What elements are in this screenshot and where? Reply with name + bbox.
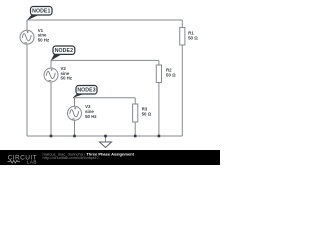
wire R1 bottom bbox=[181, 45, 183, 136]
node NODE2 flag bbox=[51, 46, 75, 61]
resistor R1 bbox=[180, 28, 185, 46]
wire V2 bottom to ground rail bbox=[50, 82, 52, 136]
svg-text:NODE1: NODE1 bbox=[32, 9, 50, 15]
wire V2 node to circle bbox=[50, 60, 52, 67]
junction dot ground/rail bbox=[104, 135, 107, 138]
voltage source V1 bbox=[20, 30, 34, 44]
svg-text:LAB: LAB bbox=[27, 159, 37, 164]
label R3 value bbox=[142, 107, 152, 117]
wire R1 top stub bbox=[181, 20, 183, 28]
label R1 value bbox=[188, 31, 198, 41]
logo resistor zigzag bbox=[8, 160, 20, 163]
wire ground stub bbox=[105, 136, 107, 142]
voltage source V2 bbox=[44, 68, 58, 82]
svg-text:50 Ω: 50 Ω bbox=[166, 73, 176, 78]
wire R3 top stub bbox=[134, 98, 136, 104]
wire R3 bottom bbox=[134, 122, 136, 136]
junction dot V3/rail bbox=[73, 135, 76, 138]
svg-text:50 Hz: 50 Hz bbox=[85, 114, 97, 119]
voltage source V3 bbox=[68, 106, 82, 120]
svg-text:50 Ω: 50 Ω bbox=[188, 36, 198, 41]
wire NODE3 horizontal bbox=[73, 97, 135, 99]
svg-text:NODE2: NODE2 bbox=[55, 48, 73, 54]
svg-text:NODE3: NODE3 bbox=[77, 88, 95, 94]
wire V1 bottom to ground rail bbox=[26, 44, 28, 136]
wire R2 top stub bbox=[158, 60, 160, 65]
wire V3 node to circle bbox=[74, 98, 76, 107]
node NODE3 flag bbox=[73, 86, 97, 98]
svg-text:50 Hz: 50 Hz bbox=[61, 76, 73, 81]
label R2 value bbox=[166, 68, 176, 78]
svg-text:http://circuitlab.com/c/b5vdqd: http://circuitlab.com/c/b5vdqd42 bbox=[43, 155, 100, 160]
label V3 value bbox=[85, 104, 97, 119]
wire V3 bottom to ground rail bbox=[74, 120, 76, 136]
svg-text:50 Hz: 50 Hz bbox=[38, 38, 50, 43]
svg-text:50 Ω: 50 Ω bbox=[142, 112, 152, 117]
junction dot R3/rail bbox=[134, 135, 137, 138]
junction dot V2/rail bbox=[50, 135, 53, 138]
ground bbox=[100, 142, 112, 148]
footer bar bbox=[0, 150, 220, 165]
label V1 value bbox=[38, 28, 50, 43]
wire bottom rail bbox=[27, 135, 182, 137]
schematic background bbox=[0, 0, 220, 165]
junction dot R2/rail bbox=[158, 135, 161, 138]
wire NODE2 horizontal bbox=[51, 59, 159, 61]
wire V1 node to circle bbox=[26, 20, 28, 30]
wire R2 bottom bbox=[158, 83, 160, 137]
resistor R2 bbox=[156, 65, 161, 83]
resistor R3 bbox=[133, 104, 138, 122]
label V2 value bbox=[61, 66, 73, 81]
wire top net NODE1 horizontal bbox=[27, 19, 182, 21]
node NODE1 flag bbox=[27, 7, 52, 21]
